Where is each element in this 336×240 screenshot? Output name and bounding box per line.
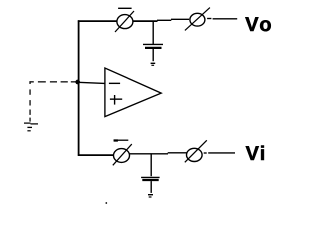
variable element E3 (circle-slash, bottom-left) <box>113 144 132 165</box>
ground: below C1 <box>151 63 156 65</box>
variable element E1 (circle-slash, top-left) <box>115 11 134 32</box>
capacitor C2 (bottom) <box>141 177 160 193</box>
label Vo <box>245 17 258 31</box>
variable element E2 (circle-slash, top-right) <box>185 8 210 31</box>
wire: dashed horizontal from node <box>29 81 76 83</box>
wire: top rail output segment <box>207 18 237 20</box>
op-amp non-inverting input label + <box>110 95 122 105</box>
ground: below C2 <box>148 195 153 197</box>
capacitor C1 (top) <box>143 44 163 61</box>
wire: bottom rail output segment <box>204 152 235 154</box>
label Vi <box>246 146 259 160</box>
polarity bar above E1 <box>118 7 132 9</box>
node: bottom capacitor junction wire <box>150 153 152 176</box>
wire: node to op-amp inverting input <box>78 82 105 83</box>
ground: at end of dashed wire <box>24 123 38 131</box>
variable element E4 (circle-slash, bottom-right) <box>185 140 207 162</box>
op-amp U1 <box>105 68 161 117</box>
wire: left vertical rail <box>78 20 80 156</box>
wire: dashed vertical down <box>29 81 31 121</box>
stray ink dot <box>105 202 107 204</box>
node: top capacitor junction wire <box>152 21 154 45</box>
wire: top rail middle segments with jog <box>133 19 189 21</box>
wire: bottom rail middle segments with jog <box>130 153 187 154</box>
polarity bar above E3 <box>114 139 129 141</box>
wire: top rail left segment <box>78 20 117 22</box>
node A (junction dot on left rail) <box>75 80 80 85</box>
wire: bottom rail left segment <box>78 154 114 156</box>
op-amp inverting input label - <box>109 82 120 84</box>
